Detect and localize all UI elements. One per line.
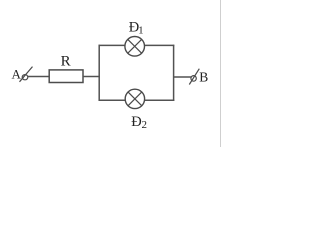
svg-text:1: 1 <box>138 24 144 36</box>
svg-text:Đ: Đ <box>131 114 141 130</box>
wire left vertical branch <box>98 45 100 101</box>
wire R to left junction <box>83 76 100 78</box>
node A <box>12 66 22 81</box>
terminal B <box>189 69 199 85</box>
svg-text:A: A <box>12 66 22 81</box>
svg-text:B: B <box>199 70 208 85</box>
label D2 <box>131 114 147 131</box>
label D1 <box>129 19 144 36</box>
lamp D2 <box>125 89 144 108</box>
terminal A <box>20 67 33 82</box>
wire bottom branch <box>99 99 175 101</box>
lamp D1 <box>125 37 145 57</box>
svg-text:2: 2 <box>142 119 148 131</box>
wire top branch <box>99 44 175 46</box>
wire right junction to B <box>174 76 192 78</box>
svg-text:R: R <box>61 54 71 70</box>
wire A to R <box>28 76 50 78</box>
wire right vertical branch <box>173 45 175 101</box>
node B <box>199 70 208 85</box>
label R <box>61 54 71 70</box>
resistor R <box>49 70 83 83</box>
